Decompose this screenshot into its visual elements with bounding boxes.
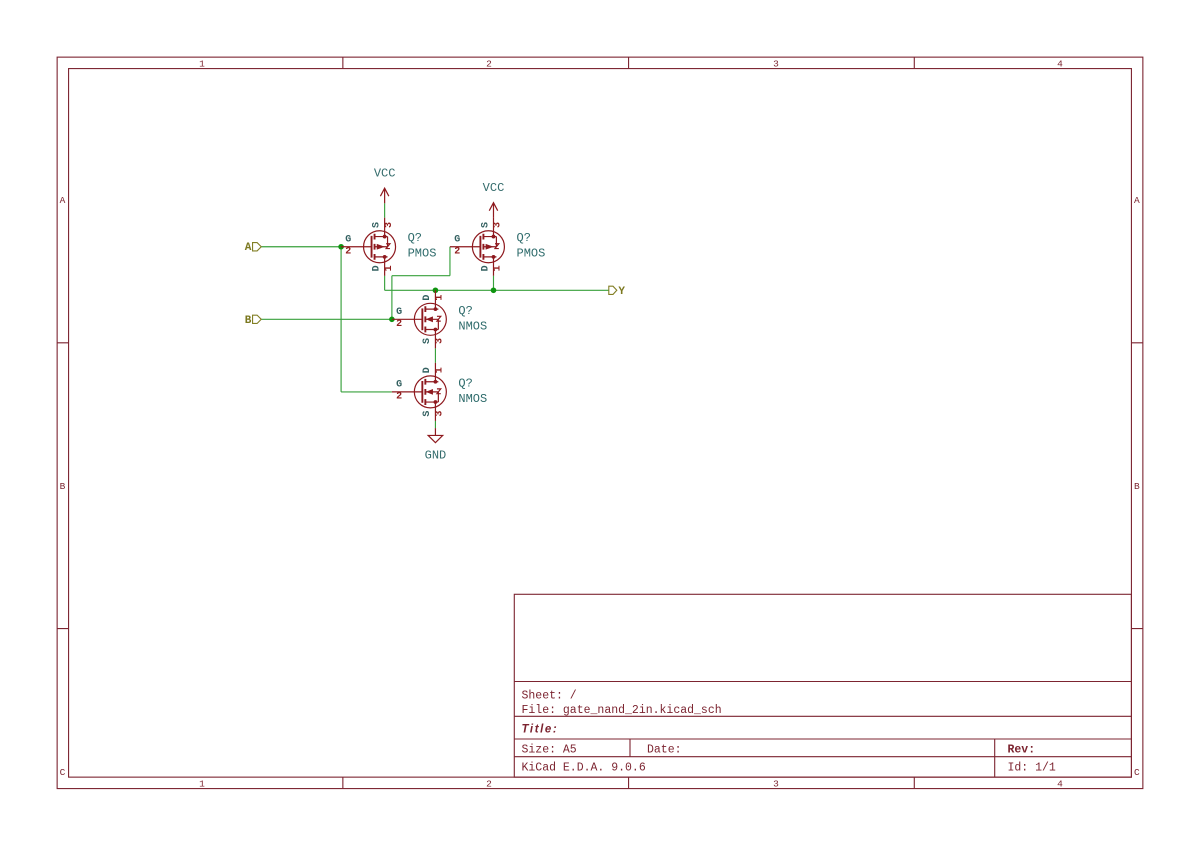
border frame inner rect [69,69,1132,778]
svg-text:1: 1 [199,58,205,69]
junction node output at Q3 drain [433,287,439,293]
svg-text:Sheet: /: Sheet: / [522,690,577,703]
wire VCC1 to Q1 source [384,203,386,218]
svg-text:NMOS: NMOS [458,392,487,406]
wire B up to Q2 gate [449,247,451,276]
hierarchical label B [245,315,261,327]
svg-text:C: C [1134,767,1140,778]
wire Q4 source to GND [434,421,436,428]
svg-text:1: 1 [493,265,504,271]
svg-text:2: 2 [454,247,460,258]
svg-text:D: D [371,265,382,271]
svg-text:B: B [60,481,66,492]
wire B junction up [391,276,393,320]
svg-text:NMOS: NMOS [458,319,487,333]
power symbol VCC 2 [483,181,505,218]
svg-text:3: 3 [384,222,395,228]
svg-text:1: 1 [435,295,446,301]
svg-text:2: 2 [345,247,351,258]
svg-text:Size: A5: Size: A5 [522,743,577,756]
hierarchical label A [245,242,261,254]
svg-text:S: S [422,411,433,417]
power symbol VCC 1 [374,166,396,203]
svg-text:G: G [454,235,460,246]
transistor Q2 PMOS body [450,218,504,276]
border frame outer rect [57,57,1143,788]
wire A junction down [340,247,342,392]
wire A to Q4 gate [341,391,392,393]
svg-text:Q?: Q? [408,231,422,245]
wire A input to junction [261,246,341,248]
svg-text:A: A [1134,195,1140,206]
title block column dividers [630,739,995,777]
svg-text:D: D [422,367,433,373]
svg-text:Q?: Q? [458,376,472,390]
svg-text:File: gate_nand_2in.kicad_sch: File: gate_nand_2in.kicad_sch [522,704,722,717]
svg-text:4: 4 [1057,58,1063,69]
transistor Q1 PMOS body [341,218,395,276]
svg-text:B: B [1134,481,1140,492]
svg-text:S: S [422,338,433,344]
svg-text:Rev:: Rev: [1008,743,1036,756]
junction node B gate [389,317,395,323]
power symbol GND [425,428,447,463]
svg-text:Date:: Date: [647,743,682,756]
frame row labels right [1134,195,1140,778]
wire Q3 source to Q4 drain [434,348,436,363]
wire output Y [385,289,609,291]
svg-text:Y: Y [618,286,625,298]
transistor Q3 NMOS body [392,290,446,348]
title block row lines [514,682,1131,757]
junction node output at Q2 drain [491,287,497,293]
svg-text:1: 1 [435,367,446,373]
svg-text:S: S [480,222,491,228]
svg-text:Q?: Q? [517,231,531,245]
svg-text:1: 1 [384,265,395,271]
svg-text:2: 2 [486,778,492,789]
svg-text:VCC: VCC [374,166,396,180]
svg-text:D: D [480,265,491,271]
svg-text:3: 3 [773,778,779,789]
svg-text:Q?: Q? [458,304,472,318]
svg-text:G: G [396,380,402,391]
frame row ticks left [57,343,68,629]
svg-text:4: 4 [1057,778,1063,789]
wire Q1 drain down [384,276,386,291]
frame column ticks bottom [343,777,914,788]
svg-text:D: D [422,295,433,301]
transistor Q4 NMOS body [392,363,446,421]
svg-text:B: B [245,315,252,327]
wire B across [392,275,450,277]
frame column labels top [199,58,1063,69]
svg-text:GND: GND [425,449,447,463]
frame column ticks top [343,57,914,68]
title block outline [514,594,1131,777]
svg-text:3: 3 [435,411,446,417]
svg-text:G: G [345,235,351,246]
svg-text:KiCad E.D.A. 9.0.6: KiCad E.D.A. 9.0.6 [522,761,646,774]
svg-text:1: 1 [199,778,205,789]
svg-text:2: 2 [396,319,402,330]
svg-text:2: 2 [486,58,492,69]
svg-text:G: G [396,307,402,318]
svg-text:3: 3 [493,222,504,228]
svg-text:PMOS: PMOS [408,247,437,261]
frame row ticks right [1131,343,1142,629]
svg-text:A: A [60,195,66,206]
frame column labels bottom [199,778,1063,789]
svg-text:3: 3 [435,338,446,344]
wire Q2 drain down [492,276,494,291]
hierarchical label Y [609,286,626,298]
wire B input to junction [261,318,392,320]
svg-text:Title:: Title: [522,724,559,736]
svg-text:A: A [245,242,252,254]
svg-text:VCC: VCC [483,181,505,195]
svg-text:C: C [60,767,66,778]
svg-text:2: 2 [396,392,402,403]
svg-text:Id: 1/1: Id: 1/1 [1008,761,1056,774]
svg-text:3: 3 [773,58,779,69]
junction node A gate [338,244,344,250]
svg-text:S: S [371,222,382,228]
frame row labels left [60,195,66,778]
svg-text:PMOS: PMOS [517,247,546,261]
